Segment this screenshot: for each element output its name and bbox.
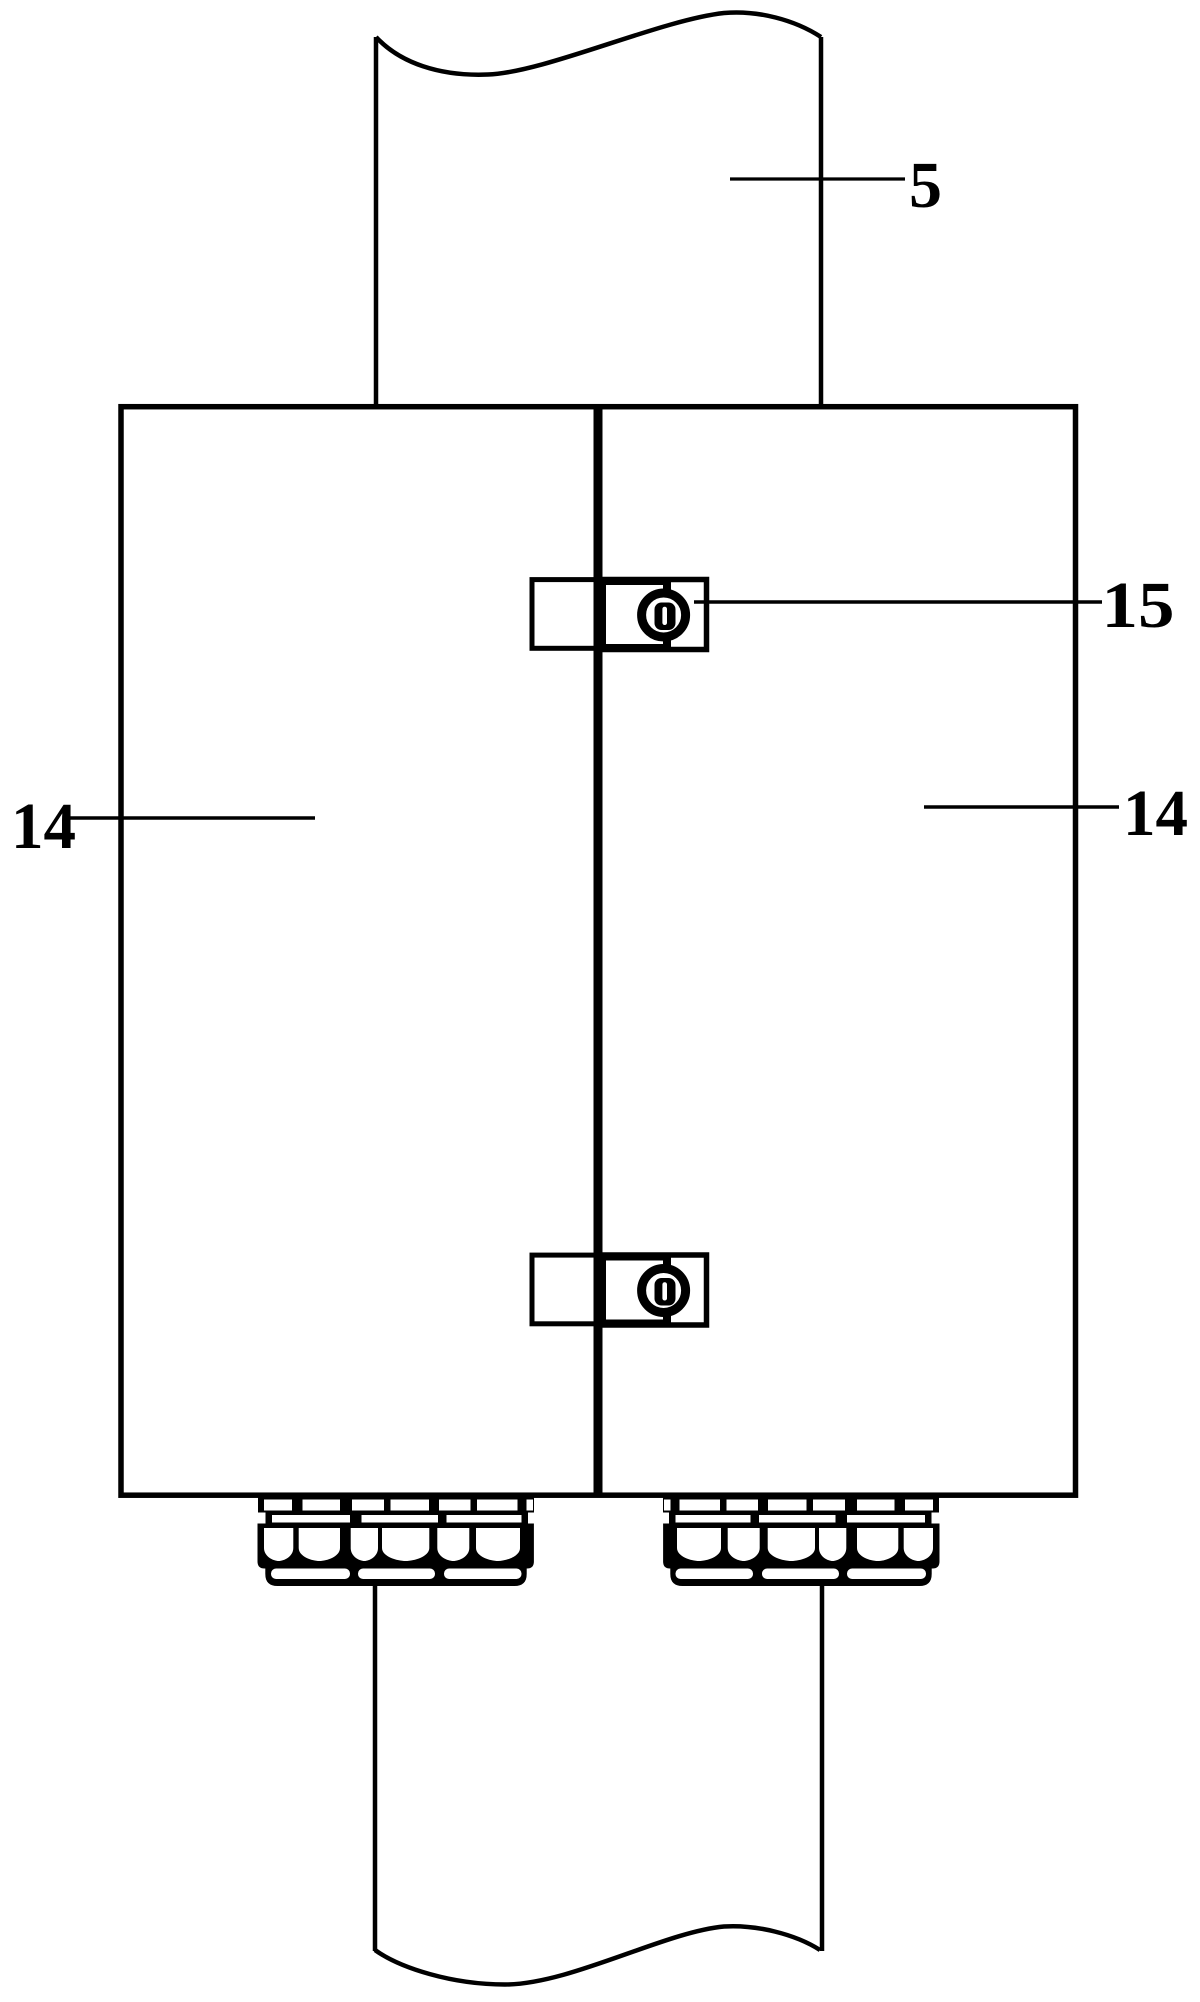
- latch lock cylinder: [642, 593, 686, 637]
- latch housing (right thin rect): [602, 580, 707, 650]
- latch keeper plate (left thin rect): [532, 580, 600, 649]
- cap band: [265, 1564, 526, 1586]
- neck band: [258, 1497, 534, 1513]
- hex body cup windows: [264, 1528, 520, 1561]
- pipe 5 lower section right edge: [820, 1560, 825, 1951]
- pipe 5 lower section left edge: [373, 1560, 378, 1951]
- svg-text:14: 14: [11, 790, 76, 863]
- pipe 5 lower break wave: [375, 1926, 820, 1984]
- washer windows: [272, 1515, 522, 1523]
- svg-text:14: 14: [1123, 777, 1188, 850]
- housing box halves 14 outline: [121, 407, 1076, 1496]
- leader line to left label 14: [66, 816, 315, 819]
- cable gland nuts left group: [258, 1497, 535, 1586]
- hex body band: [258, 1524, 534, 1569]
- parting line segment through latch: [594, 575, 603, 654]
- pipe 5 upper section right edge: [819, 37, 824, 406]
- svg-text:5: 5: [909, 149, 942, 222]
- leader line to right label 14: [924, 805, 1119, 808]
- pipe 5 upper section left edge: [374, 37, 379, 406]
- pipe 5 upper break wave: [376, 12, 821, 74]
- leader line to label 5: [730, 177, 905, 180]
- neck windows: [264, 1500, 533, 1511]
- parting line between halves: [594, 407, 603, 1495]
- washer band: [266, 1513, 529, 1524]
- latch cover plate (thick rect): [602, 581, 667, 648]
- latch 15 lower: [532, 1251, 707, 1330]
- cable gland nuts right group (mirrored): [663, 1497, 940, 1586]
- latch keyhole boss: [655, 603, 676, 631]
- svg-text:15: 15: [1102, 569, 1175, 642]
- latch key slot: [662, 607, 667, 625]
- latch 15 upper: [532, 575, 707, 654]
- leader line to label 15: [694, 600, 1102, 603]
- cap windows: [271, 1569, 522, 1580]
